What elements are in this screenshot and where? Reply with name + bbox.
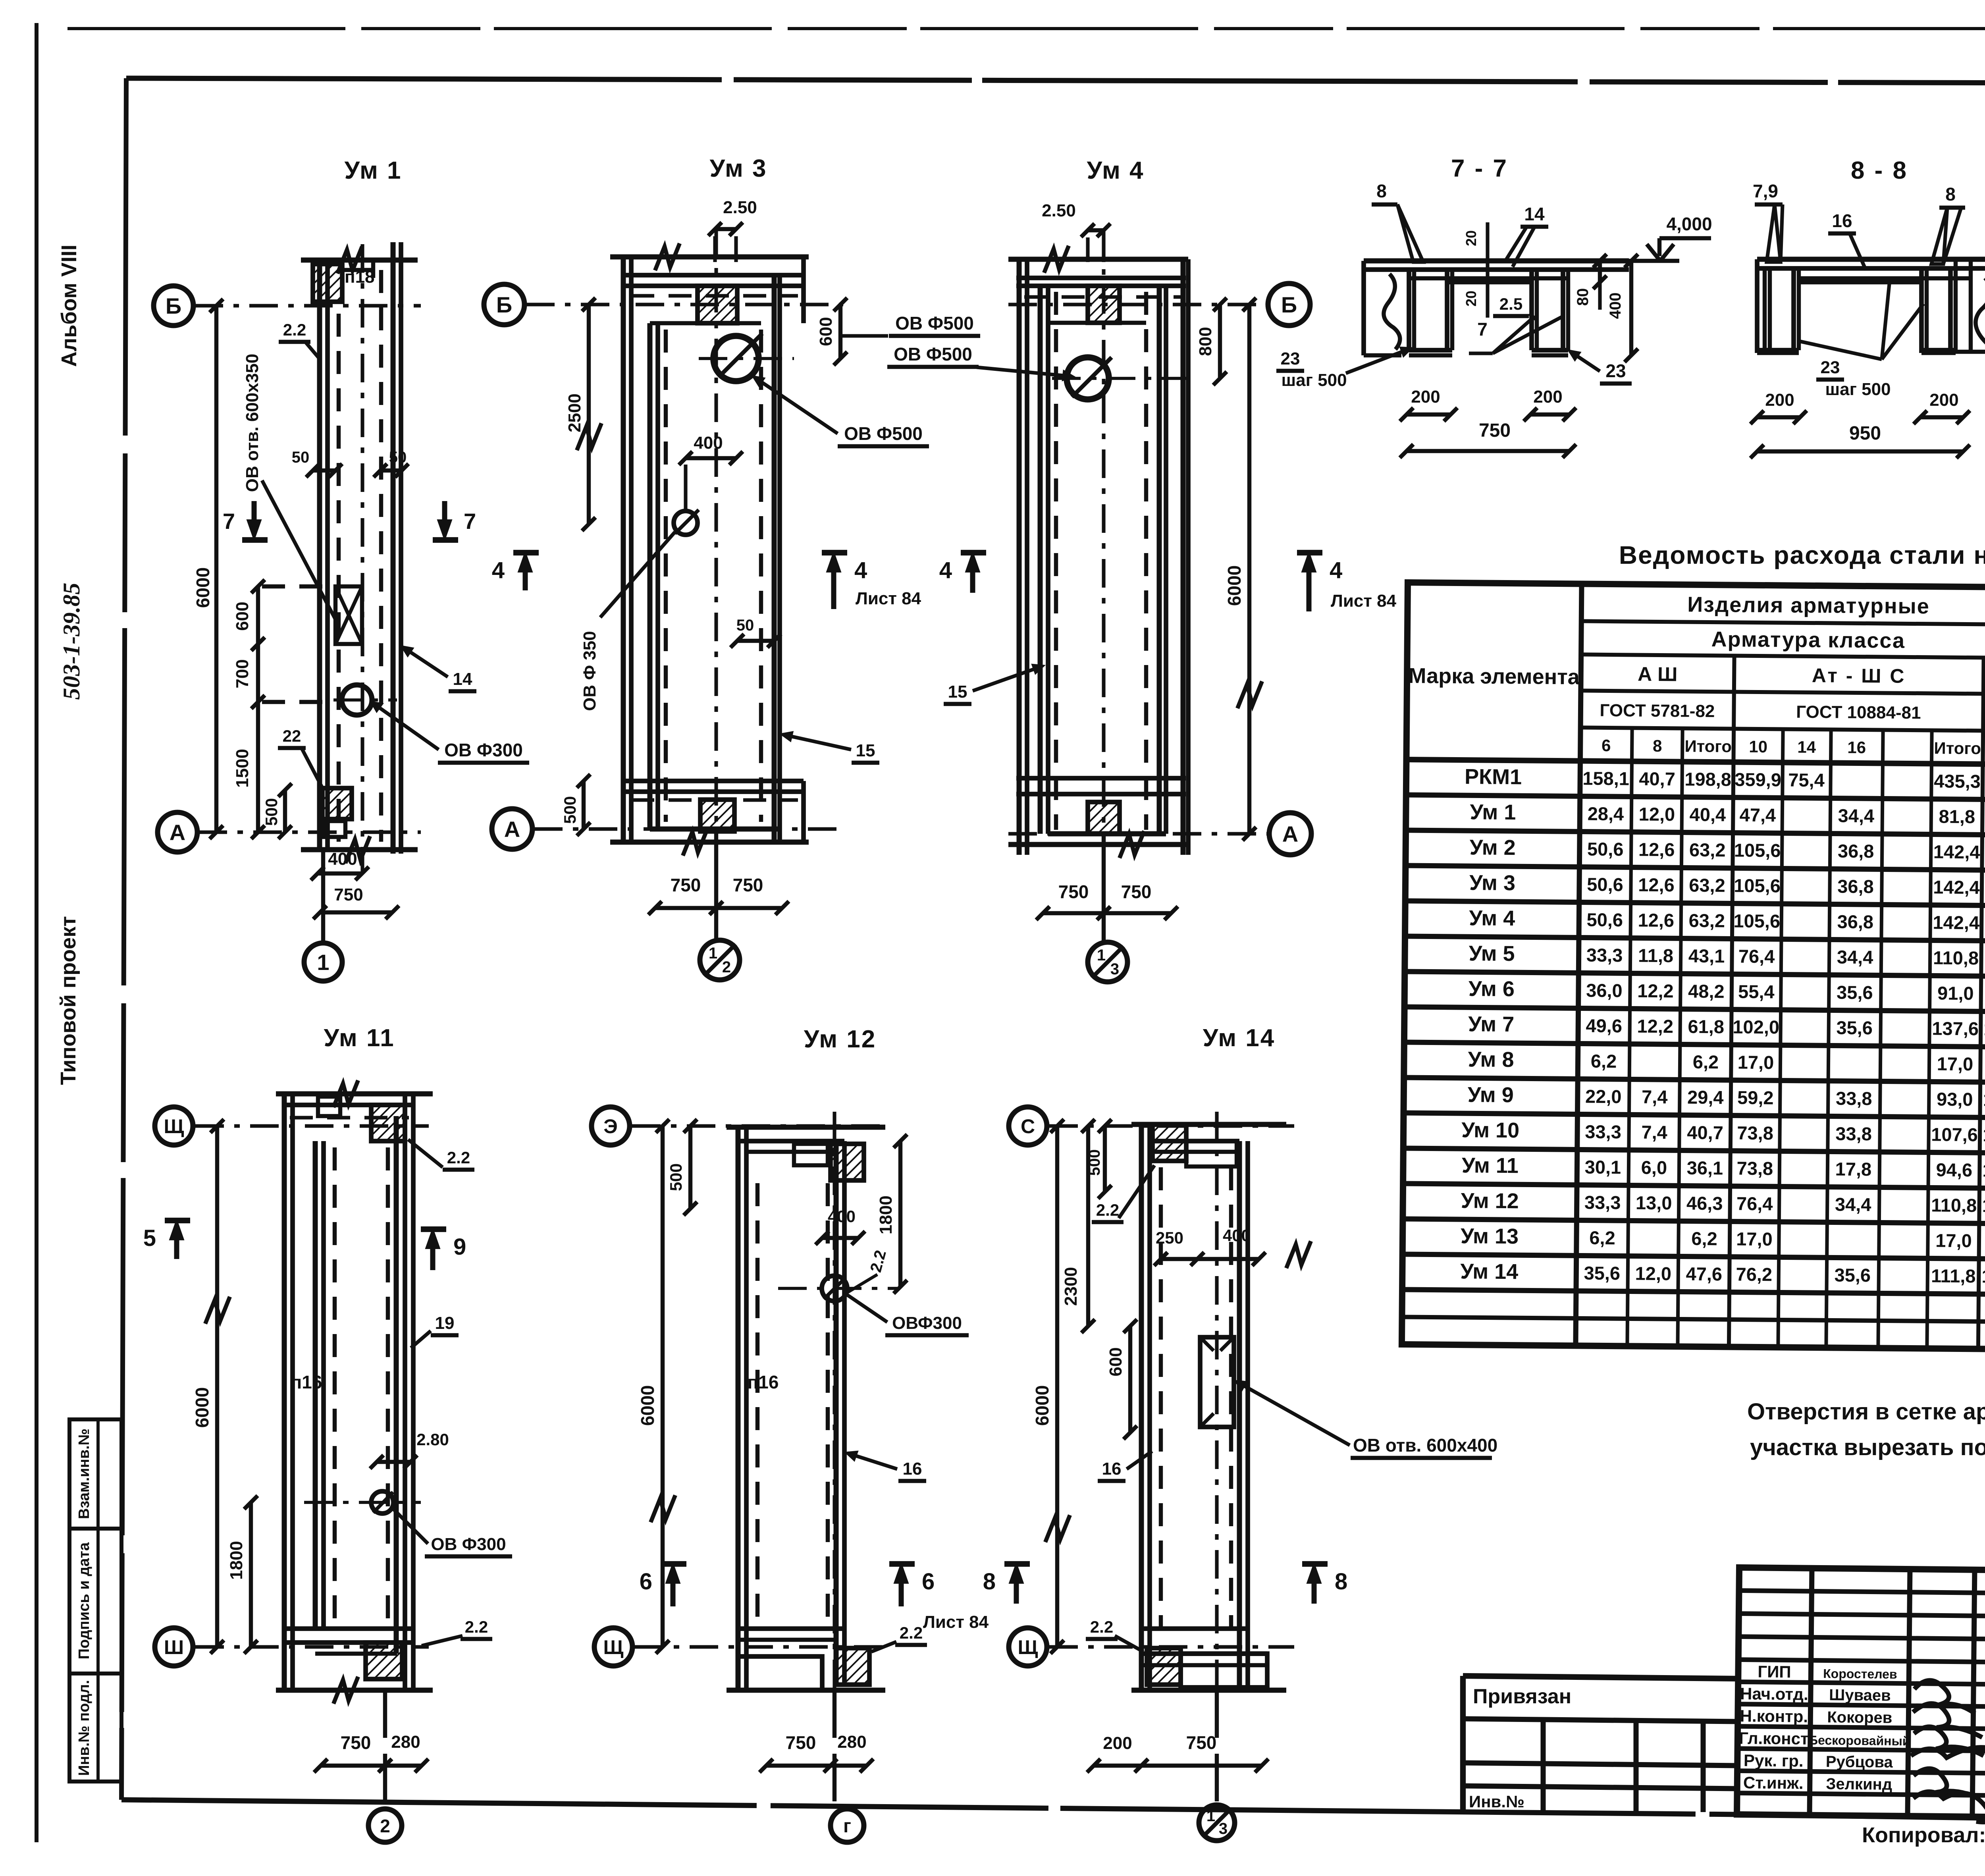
svg-text:Альбом VIII: Альбом VIII [57, 245, 81, 367]
svg-text:2.2: 2.2 [1096, 1201, 1119, 1219]
svg-text:Коростелев: Коростелев [1823, 1666, 1897, 1681]
svg-text:50,6: 50,6 [1587, 839, 1624, 860]
Ум1 label ОВ Ф300 [372, 703, 529, 763]
svg-text:Бескоровайный: Бескоровайный [1809, 1733, 1910, 1748]
svg-text:Ум 12: Ум 12 [804, 1026, 877, 1053]
Ум12 dimension 6000 [637, 1119, 675, 1654]
svg-text:п16: п16 [748, 1372, 779, 1392]
Ум3 label ОВ Ф500 leader [754, 377, 929, 446]
svg-text:50: 50 [736, 617, 754, 634]
svg-text:2.2: 2.2 [465, 1618, 488, 1636]
Ум3 dimension 600 [816, 298, 847, 365]
svg-text:73,8: 73,8 [1736, 1158, 1773, 1179]
svg-text:35,6: 35,6 [1836, 1017, 1873, 1039]
svg-text:2.50: 2.50 [723, 198, 757, 217]
svg-text:п16: п16 [291, 1372, 322, 1392]
svg-text:Ум 14: Ум 14 [1460, 1259, 1518, 1284]
Ум1 bottom embed [322, 788, 352, 837]
Ум4 hole Ф500 circle [1052, 357, 1187, 399]
svg-text:50: 50 [389, 449, 407, 466]
svg-text:Б: Б [1281, 292, 1297, 317]
svg-text:Щ: Щ [603, 1636, 624, 1658]
svg-text:Лист 84: Лист 84 [923, 1612, 989, 1632]
Ум1 section mark 7 right [433, 501, 476, 540]
Ум3 bottom embed [700, 800, 734, 831]
svg-text:2.2: 2.2 [900, 1623, 923, 1642]
svg-text:35,6: 35,6 [1834, 1264, 1871, 1286]
Ум14 top embed [1152, 1124, 1186, 1161]
svg-text:34,4: 34,4 [1838, 805, 1874, 827]
svg-text:А: А [170, 820, 185, 845]
Ум14 dimension 250 400 [1154, 1226, 1266, 1266]
svg-text:2300: 2300 [1061, 1267, 1081, 1306]
Ум14 section mark 8 left [983, 1564, 1030, 1604]
svg-text:435,3: 435,3 [1934, 770, 1981, 792]
svg-text:Привязан: Привязан [1473, 1685, 1571, 1708]
svg-text:7,9: 7,9 [1753, 181, 1778, 201]
svg-text:4: 4 [939, 557, 952, 583]
svg-text:47,6: 47,6 [1686, 1263, 1722, 1285]
svg-text:200: 200 [1929, 390, 1958, 410]
svg-text:40,7: 40,7 [1687, 1122, 1723, 1143]
svg-text:19: 19 [435, 1313, 455, 1333]
section 7-7 dimension 750 [1400, 420, 1576, 458]
Ум1 element body [301, 242, 418, 873]
svg-text:8: 8 [1653, 737, 1662, 755]
svg-text:12,2: 12,2 [1637, 1016, 1673, 1037]
svg-text:Ум 4: Ум 4 [1469, 906, 1515, 930]
section 7-7 labels 20 [1463, 222, 1488, 318]
svg-text:ОВ Ф500: ОВ Ф500 [894, 344, 972, 364]
Ум4 element body [1008, 230, 1188, 873]
svg-text:Рук. гр.: Рук. гр. [1744, 1751, 1804, 1770]
section 7-7 left leg [1409, 270, 1452, 355]
Ум3 axis circle 1/2 [700, 829, 740, 980]
section 8-8 slab [1757, 259, 1985, 282]
svg-text:Ум 9: Ум 9 [1468, 1083, 1514, 1107]
svg-text:ОВФ300: ОВФ300 [892, 1313, 962, 1333]
section 8-8 dimension 950 [1750, 423, 1970, 458]
svg-text:Ум 3: Ум 3 [1469, 871, 1515, 895]
svg-text:250: 250 [1156, 1228, 1183, 1247]
svg-text:А: А [504, 817, 520, 842]
svg-text:ГОСТ 5781-82: ГОСТ 5781-82 [1600, 701, 1715, 721]
Ум1 dimension 50 50 [292, 449, 409, 477]
svg-text:2: 2 [380, 1816, 390, 1836]
svg-text:Ум 14: Ум 14 [1203, 1024, 1276, 1052]
svg-text:3: 3 [1219, 1820, 1228, 1837]
Ум14 label 2.2 top [1092, 1165, 1154, 1222]
Ум12 label 2.2 [848, 1248, 890, 1292]
section 7-7 level mark 4.000 [1629, 214, 1712, 261]
drawing Ум4 title [1087, 157, 1144, 184]
section 8-8 title [1851, 157, 1908, 184]
section 7-7 left wall break [1364, 261, 1401, 355]
table title [1619, 541, 1985, 569]
Ум3 axis circle Б [484, 284, 843, 325]
svg-text:102,0: 102,0 [1733, 1016, 1779, 1037]
svg-text:ОВ отв. 600х350: ОВ отв. 600х350 [243, 354, 262, 492]
svg-text:ГИП: ГИП [1758, 1662, 1791, 1681]
svg-text:1800: 1800 [876, 1195, 896, 1234]
svg-text:Ум 3: Ум 3 [709, 155, 767, 182]
svg-text:500: 500 [561, 796, 579, 824]
Ум11 bottom embed [366, 1643, 402, 1679]
svg-text:159,4: 159,4 [1981, 1265, 1985, 1287]
svg-text:Ум 4: Ум 4 [1087, 157, 1144, 184]
svg-text:Щ: Щ [164, 1115, 184, 1138]
svg-text:400: 400 [1223, 1226, 1251, 1245]
svg-text:Итого: Итого [1934, 738, 1981, 758]
svg-text:6,2: 6,2 [1691, 1228, 1717, 1249]
drawing frame left [121, 78, 126, 1800]
svg-text:3: 3 [1110, 960, 1119, 978]
svg-text:6,2: 6,2 [1591, 1051, 1617, 1072]
svg-text:33,3: 33,3 [1584, 1192, 1621, 1213]
svg-text:16: 16 [1832, 210, 1852, 231]
drawing frame top [126, 78, 1985, 84]
margin text 503-1-39.85 [58, 583, 85, 700]
Ум12 element body [727, 1112, 885, 1707]
svg-text:16: 16 [1102, 1459, 1122, 1479]
svg-text:г: г [843, 1816, 851, 1837]
svg-text:Щ: Щ [1018, 1636, 1038, 1658]
svg-text:400: 400 [694, 433, 723, 453]
svg-text:Ст.инж.: Ст.инж. [1743, 1773, 1804, 1792]
Ум3 hole Ф350 circle [674, 510, 699, 535]
page outer edge left [35, 23, 39, 1842]
svg-text:48,2: 48,2 [1688, 981, 1725, 1002]
svg-text:33,3: 33,3 [1586, 945, 1623, 966]
svg-text:Нач.отд.: Нач.отд. [1740, 1684, 1808, 1704]
svg-text:30,1: 30,1 [1585, 1157, 1621, 1178]
Ум1 dimension 6000 [193, 299, 223, 839]
svg-text:4: 4 [1330, 557, 1342, 583]
Ум4 axis circle А [1008, 813, 1311, 855]
Ум11 label ОВ Ф300 [394, 1510, 512, 1556]
svg-text:12,6: 12,6 [1638, 874, 1675, 896]
copied-by note [1862, 1823, 1985, 1872]
svg-text:63,2: 63,2 [1688, 910, 1725, 931]
svg-text:4: 4 [492, 557, 505, 583]
Ум1 axis circle А [158, 812, 421, 852]
svg-text:157,1: 157,1 [1982, 1195, 1985, 1216]
svg-text:80: 80 [1574, 288, 1592, 306]
svg-text:Ум 11: Ум 11 [1462, 1153, 1519, 1178]
svg-text:Инв.№: Инв.№ [1469, 1792, 1524, 1811]
svg-text:20: 20 [1463, 291, 1479, 307]
svg-text:105,6: 105,6 [1733, 910, 1780, 931]
svg-text:ОВ Ф300: ОВ Ф300 [444, 740, 523, 760]
section 8-8 flag 7,9 [1753, 181, 1783, 262]
svg-text:12,0: 12,0 [1638, 804, 1675, 825]
svg-text:6: 6 [1601, 736, 1611, 755]
stamp column box [69, 1419, 121, 1782]
svg-text:7: 7 [464, 509, 476, 534]
svg-text:23: 23 [1821, 358, 1840, 377]
svg-text:Ум 13: Ум 13 [1461, 1224, 1519, 1248]
svg-text:Ум 1: Ум 1 [1470, 800, 1516, 824]
svg-text:6000: 6000 [1224, 565, 1245, 606]
svg-text:2.80: 2.80 [416, 1430, 449, 1449]
svg-text:23: 23 [1281, 349, 1300, 368]
svg-text:шаг 500: шаг 500 [1825, 380, 1891, 399]
Ум12 dimension 1800 [876, 1134, 907, 1294]
section 7-7 dimension 200 left [1400, 387, 1457, 421]
svg-text:8: 8 [1945, 184, 1956, 204]
Ум14 label ОВ отв.600х400 [1237, 1382, 1497, 1458]
svg-text:7,4: 7,4 [1642, 1086, 1668, 1108]
svg-text:36,8: 36,8 [1837, 911, 1873, 933]
Ум11 top embed [371, 1105, 405, 1141]
svg-text:152,2: 152,2 [1983, 1089, 1985, 1110]
page outer edge top [67, 27, 1985, 30]
Ум3 element body [610, 229, 809, 873]
svg-text:С: С [1021, 1115, 1035, 1138]
svg-text:4: 4 [854, 557, 867, 583]
Ум12 label 2.2 bottom [871, 1623, 927, 1652]
Ум1 axis circle Б [154, 286, 421, 326]
svg-text:1800: 1800 [227, 1541, 246, 1580]
svg-text:6000: 6000 [192, 1387, 212, 1428]
svg-text:7 - 7: 7 - 7 [1451, 155, 1508, 182]
svg-text:46,3: 46,3 [1686, 1193, 1723, 1214]
svg-text:750: 750 [341, 1732, 371, 1753]
Ум3 label ОВ Ф500 top [842, 313, 980, 336]
svg-text:ОВ Ф300: ОВ Ф300 [431, 1535, 506, 1554]
table steel consumption per element [1402, 582, 1985, 1353]
svg-text:36,8: 36,8 [1838, 841, 1874, 862]
Ум3 dimension 2500 [565, 298, 601, 531]
svg-text:Лист 84: Лист 84 [856, 589, 921, 608]
Ум11 label 2.2 bottom [422, 1618, 492, 1646]
Ум11 axis circle 2 bottom [368, 1690, 402, 1842]
svg-text:91,0: 91,0 [1937, 983, 1974, 1004]
svg-text:750: 750 [334, 885, 363, 904]
svg-text:Отверстия в сетке армирова: Отверстия в сетке армирования полки моно… [1747, 1399, 1985, 1425]
Ум14 opening 600x400 [1200, 1337, 1234, 1427]
note text under table [1747, 1399, 1985, 1460]
Ум11 section mark 5 left [143, 1220, 190, 1259]
Ум4 dimension 750 750 [1036, 881, 1178, 920]
svg-text:ГОСТ 10884-81: ГОСТ 10884-81 [1796, 702, 1921, 723]
Ум1 dimension chain 600-700-1500 [233, 580, 330, 839]
Ум12 hole Ф300 circle [778, 1276, 897, 1301]
Ум14 dimension 600 [1106, 1319, 1137, 1439]
section 7-7 right leg [1532, 270, 1568, 355]
svg-text:55,4: 55,4 [1738, 981, 1775, 1003]
section 8-8 flag 8 [1931, 184, 1965, 264]
title block left extension [1463, 1676, 1739, 1812]
svg-text:63,2: 63,2 [1689, 875, 1725, 896]
svg-text:23: 23 [1605, 361, 1626, 381]
Ум12 label ОВ Ф300 [848, 1295, 969, 1335]
section 7-7 label 23 шаг500 left [1276, 348, 1410, 390]
Ум12 section mark 6 left [640, 1564, 686, 1606]
Ум3 label 15 [783, 733, 879, 763]
svg-text:2.50: 2.50 [1042, 201, 1076, 220]
svg-text:359,9: 359,9 [1734, 769, 1781, 790]
svg-text:105,6: 105,6 [1734, 875, 1781, 896]
section 7-7 dimension 400 [1607, 254, 1638, 362]
drawing Ум14 title [1203, 1024, 1276, 1052]
svg-text:158,1: 158,1 [1582, 767, 1629, 789]
Ум3 section mark 4 right [822, 553, 921, 609]
svg-text:Марка элемента: Марка элемента [1408, 664, 1580, 689]
svg-text:111,8: 111,8 [1931, 1265, 1976, 1286]
svg-text:Ум 11: Ум 11 [324, 1024, 395, 1052]
svg-text:Б: Б [496, 292, 512, 317]
Ум14 axis circle С [1009, 1107, 1294, 1145]
svg-text:А Ш: А Ш [1638, 663, 1678, 686]
Ум11 axis circle Ш [155, 1628, 429, 1666]
svg-text:13,0: 13,0 [1636, 1192, 1672, 1214]
svg-text:п18: п18 [345, 267, 375, 287]
drawing Ум11 title [324, 1024, 395, 1052]
Ум11 dimension 6000 [192, 1119, 230, 1654]
svg-text:1: 1 [1097, 947, 1106, 964]
Ум4 dimension 2.50 top [1042, 201, 1110, 262]
svg-text:Зелкинд: Зелкинд [1826, 1775, 1892, 1793]
svg-text:40,7: 40,7 [1639, 768, 1675, 790]
Ум12 section mark 6 right [889, 1564, 989, 1632]
margin text typical project [56, 916, 80, 1085]
Ум11 element body [276, 1080, 433, 1704]
svg-text:6: 6 [640, 1569, 652, 1595]
Ум4 section mark 4 right [1297, 553, 1397, 611]
svg-text:280: 280 [837, 1732, 866, 1752]
Ум1 label 14 [403, 647, 476, 691]
svg-text:198,8: 198,8 [1684, 768, 1731, 790]
svg-text:6: 6 [922, 1569, 935, 1595]
svg-text:1: 1 [1206, 1807, 1215, 1825]
svg-text:600: 600 [1106, 1347, 1125, 1376]
Ум11 label 2.2 top [408, 1139, 474, 1170]
section 8-8 label 23 шаг500 [1800, 280, 1923, 399]
svg-text:400: 400 [328, 849, 357, 869]
svg-text:94,6: 94,6 [1936, 1159, 1972, 1180]
svg-text:63,2: 63,2 [1689, 839, 1726, 861]
Ум12 bottom embed [836, 1648, 869, 1685]
svg-text:Э: Э [603, 1115, 618, 1138]
svg-text:105,6: 105,6 [1734, 839, 1781, 861]
svg-text:500: 500 [262, 798, 281, 826]
svg-text:14: 14 [453, 669, 472, 689]
Ум1 top embed П18 [313, 264, 375, 302]
svg-text:200: 200 [1533, 387, 1562, 407]
svg-text:43,1: 43,1 [1688, 945, 1725, 967]
Ум14 label 2.2 bottom [1086, 1618, 1143, 1652]
svg-text:49,6: 49,6 [1586, 1015, 1622, 1037]
svg-text:500: 500 [667, 1163, 685, 1191]
svg-text:Ум 10: Ум 10 [1461, 1118, 1519, 1142]
svg-text:Подпись и дата: Подпись и дата [76, 1542, 93, 1659]
svg-text:59,2: 59,2 [1737, 1087, 1774, 1109]
svg-text:Ум 5: Ум 5 [1469, 941, 1515, 966]
svg-text:Изделия арматурные: Изделия арматурные [1687, 593, 1930, 619]
svg-text:15: 15 [948, 682, 967, 702]
Ум14 dimension 6000 [1032, 1119, 1070, 1654]
svg-text:Гл.конст: Гл.конст [1739, 1729, 1809, 1748]
svg-text:22,0: 22,0 [1585, 1086, 1622, 1107]
drawing frame bottom [121, 1800, 1985, 1826]
Ум14 axis circle 1/3 bottom [1199, 1690, 1235, 1841]
svg-text:700: 700 [233, 659, 252, 688]
Ум1 dimension 400 [311, 849, 369, 880]
svg-text:200: 200 [1103, 1733, 1132, 1753]
svg-text:73,8: 73,8 [1737, 1122, 1773, 1144]
svg-text:7: 7 [1477, 319, 1488, 339]
svg-text:400: 400 [828, 1207, 856, 1226]
svg-text:400: 400 [1607, 293, 1624, 319]
svg-text:Шуваев: Шуваев [1829, 1686, 1891, 1704]
svg-text:6,2: 6,2 [1589, 1227, 1615, 1249]
Ум3 section mark 4 left [492, 553, 539, 590]
svg-text:Рубцова: Рубцова [1826, 1753, 1893, 1771]
section 8-8 dimension 200 right [1914, 390, 1970, 424]
svg-text:22: 22 [283, 727, 301, 745]
Ум3 dimension 50 [730, 617, 781, 648]
svg-text:34,4: 34,4 [1837, 947, 1873, 968]
svg-text:110,8: 110,8 [1931, 1194, 1977, 1216]
svg-text:ОВ Ф500: ОВ Ф500 [844, 423, 923, 444]
Ум11 label П16 [291, 1372, 322, 1392]
Ум12 label 16 [848, 1452, 926, 1481]
svg-text:12,0: 12,0 [1635, 1263, 1671, 1284]
Ум14 axis circle Щ [1009, 1628, 1294, 1666]
svg-text:14: 14 [1524, 204, 1545, 224]
svg-text:ОВ отв. 600х400: ОВ отв. 600х400 [1353, 1435, 1497, 1456]
svg-text:11,8: 11,8 [1638, 945, 1673, 966]
svg-text:15: 15 [856, 741, 875, 760]
Ум12 dimension 400 [815, 1207, 865, 1245]
svg-text:200: 200 [1765, 390, 1794, 410]
Ум1 axis circle 1 [304, 850, 342, 981]
svg-text:750: 750 [1479, 420, 1511, 441]
Ум1 label 22 bottom [278, 727, 324, 790]
Ум4 section mark 4 left [939, 553, 986, 593]
svg-text:800: 800 [1196, 327, 1215, 356]
margin text album VIII [57, 245, 81, 367]
svg-text:50: 50 [292, 449, 310, 466]
svg-text:Копировал:: Копировал: [1862, 1823, 1985, 1847]
svg-text:280: 280 [391, 1732, 420, 1752]
svg-text:ОВ Ф 350: ОВ Ф 350 [580, 631, 599, 711]
svg-text:750: 750 [1186, 1732, 1217, 1753]
svg-text:29,4: 29,4 [1687, 1087, 1724, 1108]
svg-text:1500: 1500 [233, 749, 252, 788]
svg-text:148,3: 148,3 [1983, 1124, 1985, 1145]
svg-text:76,4: 76,4 [1736, 1193, 1773, 1215]
svg-text:1: 1 [709, 945, 717, 962]
svg-text:17,0: 17,0 [1738, 1052, 1774, 1073]
Ум4 label ОВ Ф500 [887, 344, 1072, 379]
svg-text:7,4: 7,4 [1641, 1122, 1667, 1143]
Ум11 dimension 750 280 [314, 1732, 428, 1772]
section 7-7 label 14 [1505, 204, 1548, 267]
section 7-7 label 7 [1469, 316, 1564, 353]
svg-text:12,2: 12,2 [1637, 980, 1674, 1002]
svg-text:А: А [1282, 821, 1298, 846]
Ум12 label П16 [748, 1372, 779, 1392]
svg-text:20: 20 [1463, 230, 1479, 246]
svg-text:28,4: 28,4 [1587, 803, 1624, 825]
svg-text:17,0: 17,0 [1937, 1053, 1973, 1075]
section 7-7 flag 8 [1372, 181, 1423, 262]
Ум14 label 16 [1098, 1451, 1152, 1481]
Ум11 hole Ф300 circle [304, 1491, 421, 1514]
Ум4 dimension 800 [1196, 298, 1227, 385]
